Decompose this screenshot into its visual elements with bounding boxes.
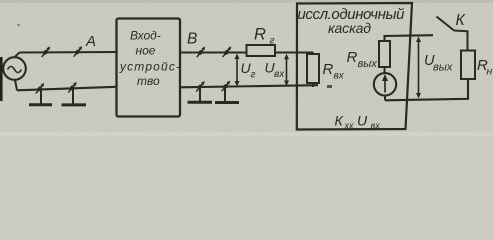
svg-text:Вход-: Вход- (130, 29, 161, 43)
svg-text:В: В (187, 31, 197, 48)
svg-text:вых: вых (358, 58, 378, 70)
svg-text:U: U (357, 113, 368, 129)
svg-text:тво: тво (137, 74, 160, 88)
svg-text:К: К (456, 12, 466, 29)
svg-text:ное: ное (136, 44, 156, 58)
svg-text:R: R (254, 26, 266, 44)
svg-text:н: н (487, 66, 493, 78)
svg-text:вх: вх (274, 69, 285, 80)
svg-text:A: A (85, 33, 96, 50)
svg-text:устройс-: устройс- (119, 60, 180, 74)
svg-text:г: г (270, 36, 275, 47)
svg-text:вх: вх (334, 71, 345, 82)
svg-text:г: г (251, 70, 256, 81)
svg-text:вых: вых (433, 62, 453, 74)
svg-text:R: R (323, 61, 334, 78)
svg-text:хх: хх (344, 121, 355, 131)
svg-text:К: К (335, 113, 344, 129)
svg-text:R: R (347, 49, 358, 66)
svg-text:вх: вх (371, 121, 381, 131)
svg-text:каскад: каскад (328, 20, 371, 36)
